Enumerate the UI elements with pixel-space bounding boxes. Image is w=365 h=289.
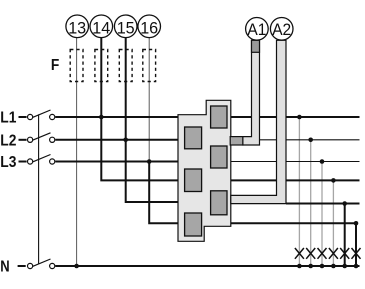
fuse F1 (dashed) on wire 13	[70, 50, 83, 82]
junction dot wire13-N	[74, 264, 79, 269]
wire from terminal 16 lower black segment into meter	[149, 162, 178, 224]
wire meter output row 5 right segment	[286, 203, 360, 205]
junction dot drop6-N	[354, 264, 359, 269]
meter terminal block 3	[211, 146, 227, 168]
svg-text:L2: L2	[0, 132, 16, 149]
junction dot drop5-N	[342, 264, 347, 269]
wire L1 left segment	[55, 116, 178, 118]
svg-text:13: 13	[68, 19, 86, 38]
conductor bar A1 terminal square	[230, 137, 243, 145]
wire stub N label	[18, 265, 26, 267]
junction dot drop2-N	[308, 264, 313, 269]
wire drop 1 from L1 to N (grey)	[298, 117, 300, 266]
meter terminal block 1	[211, 106, 227, 128]
wire drop 2 from L2 net to N (grey)	[310, 140, 312, 266]
svg-text:F: F	[51, 57, 60, 74]
wire from terminal 16 upper grey segment to L3	[148, 38, 150, 162]
wire N bus	[55, 265, 359, 267]
junction dot drop5	[342, 201, 347, 206]
wire L3 right thin segment	[231, 161, 360, 163]
wire stub L2 label	[19, 139, 27, 141]
wire L2 right thin segment	[260, 139, 360, 141]
junction dot wire16-L3	[147, 159, 152, 164]
junction dot drop4-N	[331, 264, 336, 269]
wire L3 left segment	[55, 161, 178, 163]
junction dot drop2	[308, 138, 313, 143]
wire L1 right segment	[231, 116, 360, 118]
svg-text:A1: A1	[247, 20, 266, 39]
svg-text:L3: L3	[0, 154, 16, 171]
conductor bar A1 (L-shaped)	[243, 40, 260, 145]
wire meter output row 6 right segment	[231, 222, 358, 224]
svg-text:14: 14	[92, 19, 110, 38]
junction dot wire15-L2	[123, 138, 128, 143]
switch S1 linkage bar	[38, 114, 40, 264]
wire L2 left segment	[55, 139, 178, 141]
svg-text:A2: A2	[272, 20, 291, 39]
terminal circle A2	[270, 18, 293, 41]
wire drop 5 to N (black)	[344, 204, 346, 267]
junction dot drop3	[320, 159, 325, 164]
svg-text:L1: L1	[0, 109, 16, 126]
wire meter output row 4 right segment	[231, 179, 360, 181]
terminal circle A1	[246, 18, 269, 41]
svg-text:N: N	[0, 258, 9, 275]
junction dot drop6	[354, 221, 359, 226]
fuse F3 (dashed) on wire 15	[119, 50, 132, 82]
wire stub L3 label	[19, 161, 27, 163]
switch S1 pole N	[28, 259, 55, 269]
X mark on drop2	[306, 248, 315, 259]
meter terminal block 2	[185, 127, 202, 149]
meter terminal block 6	[185, 213, 202, 236]
terminal circle 14	[90, 15, 113, 38]
X mark on drop5	[340, 248, 349, 259]
wire stub L1 label	[19, 116, 27, 118]
X mark on drop1	[295, 248, 304, 259]
junction dot drop3-N	[320, 264, 325, 269]
wire drop 6 to N (black)	[355, 223, 357, 266]
meter terminal block 5	[211, 191, 227, 215]
svg-text:16: 16	[140, 19, 158, 38]
conductor bar A2 (L-shaped)	[231, 40, 286, 203]
junction dot wire14-L1	[99, 115, 104, 120]
wire drop 4 to N (grey)	[332, 180, 334, 266]
X mark on drop4	[329, 248, 338, 259]
conductor bar A1 top cap	[252, 40, 260, 52]
switch S1 pole L3	[28, 155, 55, 165]
X mark on drop3	[318, 248, 327, 259]
junction dot drop4	[331, 178, 336, 183]
terminal circle 15	[114, 15, 137, 38]
switch S1 pole L2	[28, 133, 55, 143]
wire from terminal 15 down and right into meter	[126, 38, 178, 202]
terminal circle 16	[138, 15, 161, 38]
X mark on drop6	[352, 248, 361, 259]
junction dot drop1-N	[297, 264, 302, 269]
fuse F4 (dashed) on wire 16	[143, 50, 156, 82]
junction dot drop1-L1	[297, 115, 302, 120]
wire from terminal 13 down to N (grey)	[76, 38, 78, 266]
switch S1 pole L1	[28, 110, 55, 120]
terminal circle 13	[66, 15, 89, 38]
meter terminal block 4	[185, 169, 202, 192]
meter body U1	[178, 100, 231, 241]
svg-text:15: 15	[117, 19, 135, 38]
wire from terminal 14 down and right into meter	[101, 38, 178, 181]
fuse F2 (dashed) on wire 14	[95, 50, 108, 82]
wire drop 3 from L3 net to N (grey)	[321, 162, 323, 267]
